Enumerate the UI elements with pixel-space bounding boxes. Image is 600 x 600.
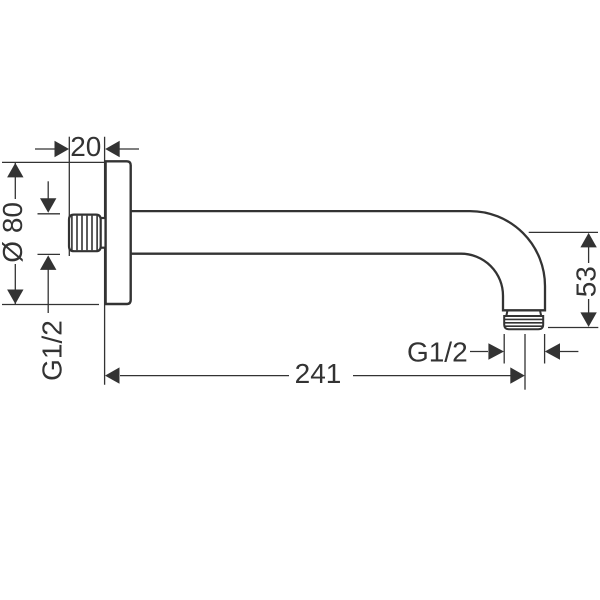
thread G1/2 down arrow stem bbox=[47, 181, 49, 200]
dimension Ø80 line upper bbox=[14, 162, 16, 199]
outlet thread body bbox=[504, 316, 543, 329]
dimension 53 line upper bbox=[588, 246, 590, 263]
wall thread neck bbox=[99, 218, 106, 248]
dimension 53 down arrow bbox=[580, 312, 596, 327]
thread G1/2 down arrow bbox=[40, 198, 56, 213]
outlet G1/2 left extension line bbox=[503, 334, 505, 364]
dimension 20 left arrow bbox=[55, 141, 70, 157]
dimension 241 line right bbox=[353, 375, 511, 377]
dimension 241 left arrow bbox=[105, 367, 120, 383]
thread G1/2 up arrow bbox=[40, 255, 56, 270]
outlet G1/2 left arrow bbox=[488, 343, 504, 359]
svg-text:53: 53 bbox=[571, 266, 600, 297]
dimension Ø80 line lower bbox=[14, 264, 16, 305]
outlet neck bbox=[506, 310, 541, 316]
dimension 53 line lower bbox=[588, 299, 590, 314]
svg-text:Ø 80: Ø 80 bbox=[0, 202, 28, 263]
dimension 20 line right tail bbox=[119, 148, 139, 150]
dimension 53 bottom tick bbox=[548, 327, 598, 329]
dimension 53 top tick bbox=[529, 231, 598, 233]
thread G1/2 upper tick bbox=[38, 213, 61, 215]
dimension Ø80 up arrow bbox=[7, 163, 23, 178]
dimension 53 up arrow bbox=[580, 233, 596, 248]
outlet step line bbox=[503, 309, 545, 311]
dimension 20 right arrow bbox=[105, 141, 120, 157]
extension line flange bottom (y=304.5) bbox=[2, 304, 99, 306]
extension line wall face (x=104.6) bbox=[104, 137, 106, 385]
outlet G1/2 leader line bbox=[470, 351, 488, 353]
outlet G1/2 right arrow bbox=[545, 343, 560, 359]
dimension 20 line left tail bbox=[35, 148, 56, 150]
thread G1/2 lower tick bbox=[38, 253, 61, 255]
outlet thread ribs bbox=[504, 319, 544, 326]
extension line thread tip (x=69) bbox=[68, 137, 70, 256]
svg-text:G1/2: G1/2 bbox=[407, 337, 468, 368]
arm pipe with bend bbox=[130, 211, 545, 310]
extension line flange top (y=162.4) bbox=[2, 161, 105, 163]
thread G1/2 leader stem bbox=[47, 269, 49, 313]
svg-text:20: 20 bbox=[70, 131, 101, 162]
dimension 241 right arrow bbox=[510, 367, 525, 383]
svg-text:241: 241 bbox=[295, 358, 342, 389]
outlet G1/2 right extension line bbox=[544, 334, 546, 364]
outlet G1/2 right tail bbox=[560, 351, 578, 353]
wall thread body bbox=[69, 215, 101, 252]
outlet centre extension line bbox=[524, 334, 526, 390]
wall thread hatch lines bbox=[72, 216, 97, 251]
svg-text:G1/2: G1/2 bbox=[36, 320, 67, 381]
dimension 241 line left bbox=[120, 375, 289, 377]
wall flange bbox=[106, 161, 131, 304]
dimension Ø80 down arrow bbox=[7, 290, 23, 305]
